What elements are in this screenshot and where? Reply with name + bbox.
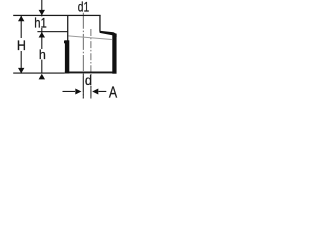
svg-text:H: H	[17, 38, 26, 54]
svg-text:h1: h1	[34, 16, 47, 31]
svg-text:d1: d1	[78, 0, 90, 15]
svg-text:d: d	[85, 73, 92, 89]
svg-text:h: h	[39, 47, 46, 62]
svg-text:A: A	[109, 83, 118, 101]
